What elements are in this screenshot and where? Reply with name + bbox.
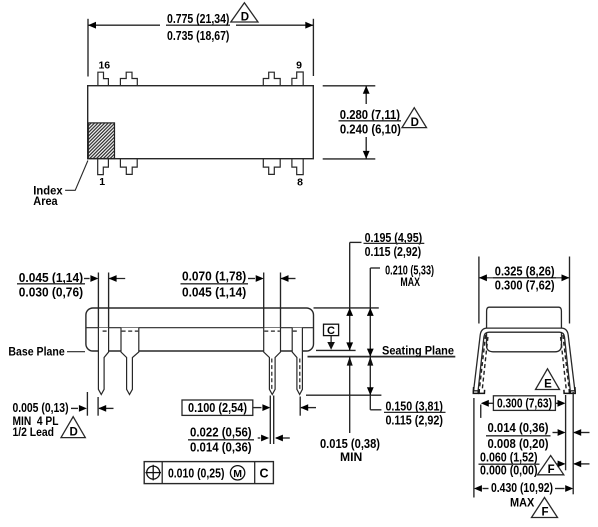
svg-text:0.115 (2,92): 0.115 (2,92) [385, 413, 443, 428]
svg-text:D: D [69, 427, 77, 439]
svg-text:0.005 (0,13): 0.005 (0,13) [12, 400, 68, 415]
svg-text:F: F [548, 464, 555, 476]
svg-text:16: 16 [98, 60, 110, 72]
svg-text:0.100 (2,54): 0.100 (2,54) [188, 400, 247, 415]
svg-text:0.022 (0,56): 0.022 (0,56) [190, 425, 252, 440]
svg-text:0.325 (8,26): 0.325 (8,26) [495, 264, 555, 279]
svg-text:0.014 (0,36): 0.014 (0,36) [190, 440, 252, 455]
svg-text:0.015 (0,38): 0.015 (0,38) [320, 436, 380, 451]
svg-text:0.070 (1,78): 0.070 (1,78) [182, 268, 246, 283]
svg-text:0.300 (7,62): 0.300 (7,62) [495, 278, 555, 293]
svg-text:0.430 (10,92): 0.430 (10,92) [491, 480, 553, 495]
svg-text:0.240 (6,10): 0.240 (6,10) [340, 121, 401, 136]
svg-text:0.045 (1,14): 0.045 (1,14) [182, 285, 246, 300]
svg-text:0.000 (0,00): 0.000 (0,00) [480, 463, 538, 478]
svg-text:8: 8 [297, 177, 303, 189]
svg-text:0.150 (3,81): 0.150 (3,81) [385, 399, 443, 414]
svg-text:0.115 (2,92): 0.115 (2,92) [365, 244, 422, 259]
svg-text:MAX: MAX [510, 496, 534, 510]
svg-text:MIN: MIN [340, 450, 362, 464]
svg-text:1: 1 [99, 176, 105, 188]
svg-text:0.735 (18,67): 0.735 (18,67) [167, 28, 229, 43]
svg-text:D: D [241, 12, 249, 24]
svg-text:F: F [541, 507, 548, 519]
svg-text:C: C [327, 325, 335, 337]
svg-text:0.030 (0,76): 0.030 (0,76) [19, 285, 83, 300]
svg-text:Area: Area [33, 194, 58, 208]
svg-text:E: E [544, 379, 552, 391]
svg-text:M: M [233, 468, 242, 480]
svg-text:0.775 (21,34): 0.775 (21,34) [167, 11, 229, 26]
svg-text:D: D [411, 117, 419, 129]
svg-text:0.280 (7,11): 0.280 (7,11) [340, 107, 400, 122]
svg-text:9: 9 [296, 60, 302, 72]
svg-text:MAX: MAX [400, 275, 420, 289]
svg-text:C: C [259, 467, 268, 481]
svg-text:0.010 (0,25): 0.010 (0,25) [168, 466, 225, 481]
svg-text:0.045 (1,14): 0.045 (1,14) [19, 270, 83, 285]
svg-text:Base Plane: Base Plane [8, 345, 65, 359]
svg-text:0.300 (7,63): 0.300 (7,63) [497, 395, 552, 410]
svg-text:1/2 Lead: 1/2 Lead [13, 425, 55, 439]
svg-text:Seating Plane: Seating Plane [382, 343, 454, 357]
svg-text:0.014 (0,36): 0.014 (0,36) [488, 420, 549, 435]
